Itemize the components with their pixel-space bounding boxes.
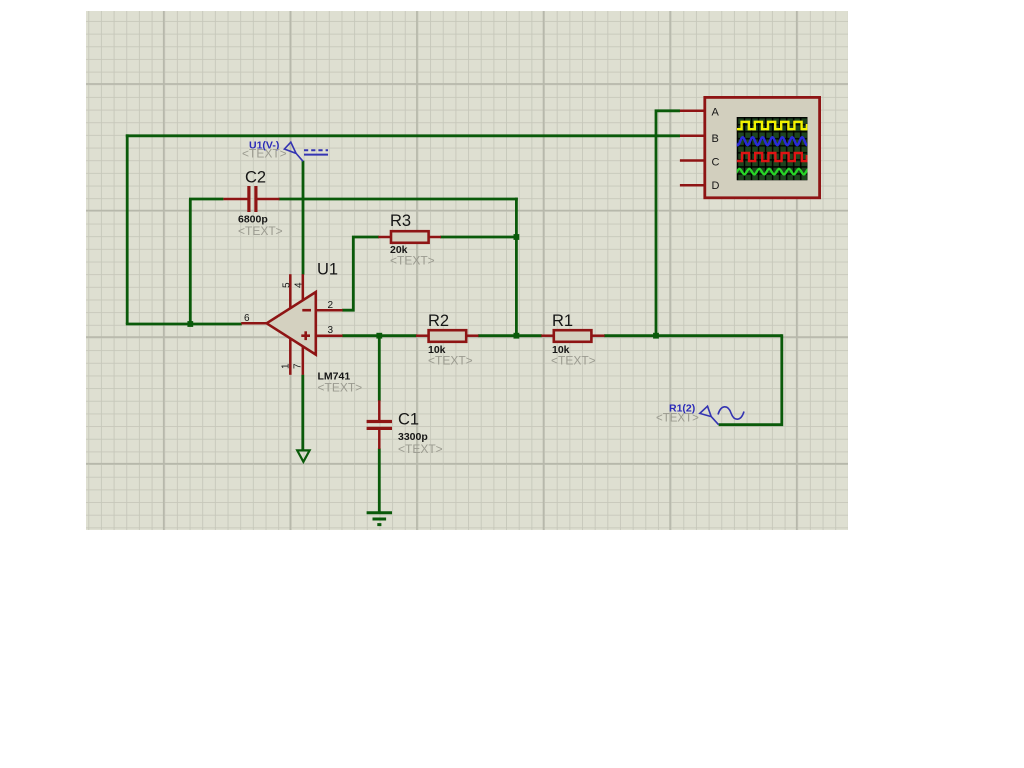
voltage probe R1(2)	[656, 403, 744, 425]
wire R1 right to probe corner	[604, 334, 782, 337]
svg-text:R2: R2	[428, 312, 449, 330]
op-amp pin 4 stub	[302, 274, 305, 300]
wire op-amp pin 7 to arrow	[301, 375, 304, 451]
svg-text:7: 7	[293, 363, 304, 369]
op-amp pin 5 stub	[289, 274, 292, 308]
capacitor C2	[238, 169, 283, 239]
pin stub R2 right	[466, 334, 478, 337]
svg-text:A: A	[712, 107, 720, 119]
svg-text:D: D	[712, 180, 720, 192]
svg-text:C: C	[712, 157, 720, 169]
wire C1 top leg	[378, 336, 381, 401]
svg-text:U1: U1	[317, 261, 338, 279]
resistor R3	[390, 212, 435, 268]
svg-text:<TEXT>: <TEXT>	[242, 147, 287, 161]
svg-text:<TEXT>: <TEXT>	[238, 224, 283, 238]
scope pin B stub	[680, 135, 705, 138]
capacitor C1	[367, 411, 443, 457]
junction node R2/R1 on vertical	[514, 333, 520, 339]
scope pin C stub	[680, 159, 705, 162]
oscilloscope body	[705, 97, 820, 197]
svg-text:<TEXT>: <TEXT>	[390, 254, 435, 268]
pin stub C2 left	[223, 198, 248, 201]
wire C1 bottom to ground	[378, 448, 381, 513]
svg-text:3: 3	[328, 325, 334, 336]
pin stub C1 bottom	[378, 429, 381, 449]
svg-text:C1: C1	[398, 411, 419, 429]
op-amp pin 2 stub	[316, 309, 343, 312]
pin stub R1 left	[541, 334, 554, 337]
wire R3 right to vertical	[440, 236, 516, 239]
svg-text:R1: R1	[552, 312, 573, 330]
wire C2 right to corner	[279, 198, 518, 201]
wire horizontal to op-amp pin 6	[126, 323, 242, 326]
junction node at feedback/pin6 leg	[187, 321, 193, 327]
pin stub C1 top	[378, 400, 381, 420]
svg-text:4: 4	[294, 282, 305, 288]
resistor R1	[551, 312, 596, 368]
svg-text:6: 6	[244, 313, 250, 324]
svg-text:<TEXT>: <TEXT>	[428, 354, 473, 368]
svg-text:<TEXT>: <TEXT>	[656, 413, 699, 425]
pin stub R3 left	[378, 236, 391, 239]
svg-text:1: 1	[281, 363, 292, 369]
svg-text:R3: R3	[390, 212, 411, 230]
arrow terminal below pin 7	[297, 450, 309, 461]
svg-text:C2: C2	[245, 169, 266, 187]
wire R2 to R1	[478, 334, 542, 337]
op-amp U1	[244, 261, 362, 395]
scope trace channel B blue wave	[728, 137, 807, 145]
wire vertical x=516 down to main net	[515, 198, 518, 336]
schematic sheet background	[86, 11, 848, 530]
wire scope A elbow	[656, 111, 680, 337]
wire probe U1(V-) vertical	[302, 161, 305, 275]
wire vertical C2 left leg	[189, 199, 192, 325]
wire R3 left elbow to pin 2	[342, 237, 379, 310]
wire top horizontal feedback to scope B	[126, 134, 680, 137]
junction node C1 top	[376, 333, 382, 339]
op-amp pin 6 stub	[241, 322, 266, 325]
op-amp pin 1 stub	[289, 338, 292, 375]
wire pin 3 to R2	[342, 334, 417, 337]
svg-text:<TEXT>: <TEXT>	[551, 354, 596, 368]
pin stub C2 right	[257, 198, 280, 201]
pin stub R2 left	[416, 334, 429, 337]
ground symbol	[367, 513, 392, 525]
op-amp pin 7 stub	[302, 346, 305, 375]
svg-text:<TEXT>: <TEXT>	[398, 442, 443, 456]
svg-text:<TEXT>: <TEXT>	[318, 381, 363, 395]
scope trace channel D green sine wave	[730, 169, 809, 175]
pin stub R3 right	[429, 236, 441, 239]
wire left vertical	[126, 134, 129, 324]
scope pin A stub	[680, 110, 705, 113]
voltage probe U1(V-)	[242, 140, 328, 162]
svg-text:2: 2	[328, 300, 334, 311]
op-amp pin 3 stub	[316, 334, 343, 337]
svg-text:B: B	[712, 133, 719, 145]
scope trace channel A yellow square wave	[737, 122, 807, 129]
junction node scope A branch	[653, 333, 659, 339]
major grid lines	[86, 11, 848, 530]
junction node R3 right on vertical	[514, 234, 520, 240]
oscilloscope screen	[737, 117, 808, 180]
svg-text:5: 5	[282, 282, 293, 288]
scope trace channel C red square wave	[737, 153, 807, 161]
wire right vertical to probe	[719, 334, 782, 424]
scope pin D stub	[680, 184, 705, 187]
wire horizontal to C2 left	[189, 198, 223, 201]
resistor R2	[428, 312, 473, 368]
pin stub R1 right	[592, 334, 604, 337]
